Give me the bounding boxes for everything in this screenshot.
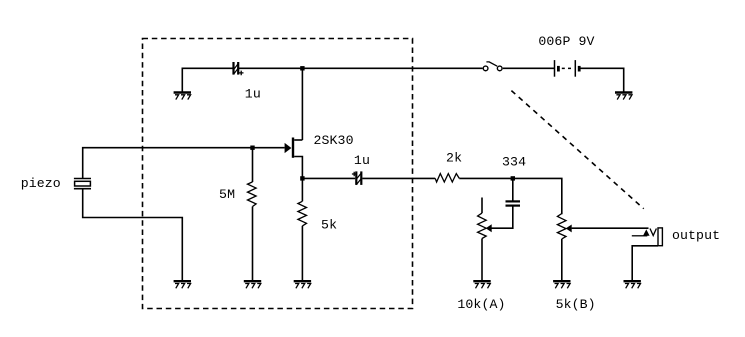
resistor 5M (gate bias) bbox=[248, 148, 257, 281]
dashed link: switch to output jack bbox=[511, 91, 643, 209]
wire: switch to battery bbox=[503, 67, 555, 69]
svg-text:1u: 1u bbox=[245, 87, 261, 102]
piezo element bbox=[74, 179, 91, 189]
wire: output cap to 2k bbox=[362, 177, 435, 179]
svg-text:5k(B): 5k(B) bbox=[556, 297, 596, 312]
node: gate / 5M junction bbox=[250, 146, 254, 150]
wire: junction down to 334 cap bbox=[512, 178, 514, 200]
ground (10k pot) bbox=[473, 281, 490, 288]
svg-text:334: 334 bbox=[502, 154, 526, 169]
svg-text:10k(A): 10k(A) bbox=[457, 297, 505, 312]
wire: battery to ground corner bbox=[580, 68, 624, 92]
ground (5M) bbox=[244, 281, 261, 288]
wire: top rail left segment bbox=[182, 68, 232, 92]
wire: source node to output cap bbox=[302, 177, 355, 179]
svg-text:5k: 5k bbox=[321, 218, 337, 233]
potentiometer 5k(B) volume bbox=[557, 214, 571, 281]
node: V+ rail / drain junction bbox=[300, 66, 304, 70]
wire: piezo bottom to ground bbox=[83, 189, 183, 280]
potentiometer 10k(A) tone bbox=[478, 198, 492, 281]
svg-text:2SK30: 2SK30 bbox=[314, 133, 354, 148]
svg-text:006P 9V: 006P 9V bbox=[538, 34, 594, 49]
transistor 2SK30 JFET bbox=[285, 138, 303, 179]
ground (5k) bbox=[294, 281, 311, 288]
ground (piezo return) bbox=[174, 281, 191, 288]
wire: 5k(B) wiper to jack tip bbox=[572, 227, 649, 229]
wire: 2k to 5k(B) pot bbox=[459, 178, 562, 214]
wire: piezo top to gate bbox=[83, 148, 285, 178]
svg-text:5M: 5M bbox=[219, 187, 235, 202]
preamp enclosure dashed box bbox=[143, 39, 413, 309]
svg-text:piezo: piezo bbox=[21, 176, 61, 191]
wire: 334 cap to 10k wiper bbox=[492, 207, 513, 229]
resistor 5k (source load) bbox=[298, 178, 307, 280]
wire: jack sleeve to ground bbox=[632, 246, 658, 281]
svg-text:2k: 2k bbox=[446, 150, 462, 165]
resistor 2k (series) bbox=[435, 174, 459, 182]
ground (5k pot) bbox=[553, 281, 570, 288]
battery 006P 9V bbox=[555, 60, 580, 77]
svg-text:1u: 1u bbox=[354, 153, 370, 168]
node: 334 junction bbox=[511, 176, 515, 180]
ground (top-left) bbox=[174, 93, 191, 100]
switch SW (power, jack-actuated) bbox=[483, 62, 502, 71]
capacitor 1u (output electrolytic) bbox=[352, 171, 361, 185]
output jack J1 bbox=[632, 228, 663, 246]
capacitor 1u (input electrolytic) bbox=[234, 62, 244, 75]
wire: junction down to drain bbox=[301, 68, 303, 140]
capacitor 334 (tone) bbox=[506, 201, 521, 205]
node: source junction bbox=[300, 176, 304, 180]
ground (jack sleeve) bbox=[624, 281, 641, 288]
wire: top rail cap to switch bbox=[239, 67, 483, 69]
ground (battery negative) bbox=[615, 93, 632, 100]
svg-text:output: output bbox=[672, 228, 720, 243]
